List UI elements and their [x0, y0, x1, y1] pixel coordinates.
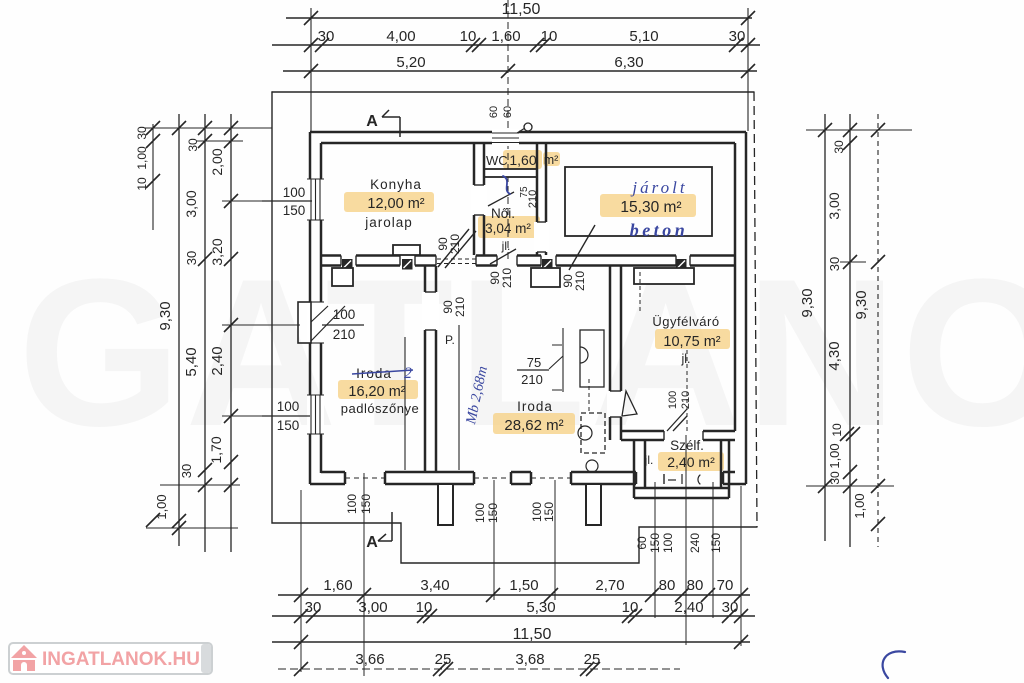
svg-text:60: 60 — [488, 106, 500, 118]
svg-text:3,66: 3,66 — [355, 651, 384, 668]
svg-text:5,40: 5,40 — [183, 347, 200, 376]
svg-text:3,00: 3,00 — [183, 190, 199, 217]
svg-text:10: 10 — [460, 28, 477, 45]
svg-text:25: 25 — [584, 651, 601, 668]
svg-text:150: 150 — [277, 418, 300, 433]
svg-text:INGATLANOK.HU: INGATLANOK.HU — [42, 649, 200, 670]
svg-text:2,00: 2,00 — [209, 148, 225, 175]
svg-text:1,00: 1,00 — [154, 494, 169, 519]
svg-text:Iroda: Iroda — [517, 399, 553, 414]
svg-text:11,50: 11,50 — [513, 626, 552, 643]
svg-text:30: 30 — [828, 471, 842, 485]
svg-text:70: 70 — [717, 577, 734, 594]
svg-text:jarolap: jarolap — [364, 215, 413, 230]
svg-text:30: 30 — [722, 599, 739, 616]
svg-text:210: 210 — [521, 372, 543, 387]
svg-text:beton: beton — [630, 220, 689, 240]
svg-text:150: 150 — [648, 533, 662, 553]
svg-text:4,00: 4,00 — [386, 28, 415, 45]
svg-text:210: 210 — [527, 190, 539, 208]
svg-text:WC: WC — [486, 153, 508, 168]
svg-text:3,00: 3,00 — [826, 192, 842, 219]
svg-text:30: 30 — [184, 251, 199, 265]
svg-text:210: 210 — [448, 234, 462, 254]
svg-text:28,62 m²: 28,62 m² — [504, 417, 563, 434]
svg-text:P.: P. — [445, 333, 455, 347]
svg-text:3,40: 3,40 — [420, 577, 449, 594]
svg-text:100: 100 — [333, 307, 356, 322]
svg-text:240: 240 — [688, 533, 702, 553]
svg-text:80: 80 — [659, 577, 676, 594]
svg-text:Szélf.: Szélf. — [670, 438, 704, 453]
svg-text:10: 10 — [135, 177, 149, 191]
svg-text:100: 100 — [667, 391, 679, 409]
svg-text:75: 75 — [527, 355, 541, 370]
svg-text:5,30: 5,30 — [526, 599, 555, 616]
svg-text:60: 60 — [635, 536, 649, 550]
svg-text:11,50: 11,50 — [502, 1, 541, 18]
svg-text:30: 30 — [186, 138, 200, 152]
svg-text:100: 100 — [283, 185, 306, 200]
svg-text:1,00: 1,00 — [852, 493, 867, 518]
svg-text:2,70: 2,70 — [595, 577, 624, 594]
svg-text:3,20: 3,20 — [209, 238, 225, 265]
svg-text:12,00 m²: 12,00 m² — [367, 196, 424, 212]
svg-text:10: 10 — [541, 28, 558, 45]
svg-text:5,20: 5,20 — [396, 54, 425, 71]
svg-text:A: A — [366, 113, 378, 130]
svg-text:100: 100 — [345, 494, 359, 514]
svg-text:30: 30 — [135, 126, 149, 140]
svg-text:jl.: jl. — [680, 352, 690, 366]
svg-text:jl.: jl. — [501, 239, 511, 253]
svg-text:15,30 m²: 15,30 m² — [620, 199, 681, 216]
svg-text:150: 150 — [542, 502, 556, 522]
svg-text:1,70: 1,70 — [208, 436, 224, 463]
svg-text:16,20 m²: 16,20 m² — [348, 384, 405, 400]
svg-text:Női.: Női. — [491, 206, 515, 221]
svg-text:3,68: 3,68 — [515, 651, 544, 668]
svg-text:150: 150 — [359, 494, 373, 514]
svg-text:5,10: 5,10 — [629, 28, 658, 45]
svg-text:járolt: járolt — [630, 178, 687, 197]
svg-text:150: 150 — [486, 503, 500, 523]
svg-text:1,60: 1,60 — [509, 152, 536, 168]
svg-text:2,40 m²: 2,40 m² — [667, 454, 715, 470]
svg-text:30: 30 — [827, 257, 842, 271]
svg-text:3,04 m²: 3,04 m² — [485, 221, 531, 236]
svg-text:Ügyfélváró: Ügyfélváró — [652, 314, 719, 329]
svg-text:9,30: 9,30 — [157, 301, 174, 330]
svg-text:30: 30 — [179, 464, 194, 478]
svg-text:210: 210 — [500, 268, 514, 288]
svg-text:2,40: 2,40 — [209, 346, 226, 375]
svg-text:30: 30 — [832, 140, 846, 154]
svg-text:m²: m² — [544, 153, 559, 167]
svg-text:9,30: 9,30 — [799, 288, 816, 317]
svg-text:jl.: jl. — [644, 453, 654, 467]
svg-text:30: 30 — [318, 28, 335, 45]
svg-text:10,75 m²: 10,75 m² — [663, 334, 720, 350]
svg-text:80: 80 — [687, 577, 704, 594]
svg-text:25: 25 — [435, 651, 452, 668]
svg-text:1,60: 1,60 — [323, 577, 352, 594]
svg-text:100: 100 — [277, 399, 300, 414]
svg-text:9,30: 9,30 — [853, 290, 870, 319]
svg-text:padlószőnye: padlószőnye — [341, 401, 420, 416]
svg-text:10: 10 — [416, 599, 433, 616]
svg-text:210: 210 — [573, 271, 587, 291]
svg-text:6,30: 6,30 — [614, 54, 643, 71]
svg-text:210: 210 — [453, 297, 467, 317]
svg-text:210: 210 — [333, 327, 356, 342]
svg-text:60: 60 — [502, 106, 514, 118]
svg-text:150: 150 — [283, 203, 306, 218]
svg-text:1,00: 1,00 — [135, 146, 149, 170]
svg-text:150: 150 — [709, 533, 723, 553]
svg-text:2: 2 — [404, 365, 412, 382]
svg-text:210: 210 — [680, 391, 692, 409]
svg-text:100: 100 — [661, 533, 675, 553]
svg-text:4,30: 4,30 — [826, 341, 843, 370]
svg-text:1,00: 1,00 — [827, 443, 842, 468]
svg-text:1,60: 1,60 — [491, 28, 520, 45]
svg-text:3,00: 3,00 — [358, 599, 387, 616]
svg-text:1,50: 1,50 — [509, 577, 538, 594]
svg-text:30: 30 — [729, 28, 746, 45]
svg-text:Konyha: Konyha — [370, 177, 422, 192]
svg-text:A: A — [366, 534, 378, 551]
svg-text:30: 30 — [305, 599, 322, 616]
svg-text:100: 100 — [473, 503, 487, 523]
svg-text:10: 10 — [622, 599, 639, 616]
svg-text:2,40: 2,40 — [674, 599, 703, 616]
svg-text:10: 10 — [830, 423, 844, 437]
